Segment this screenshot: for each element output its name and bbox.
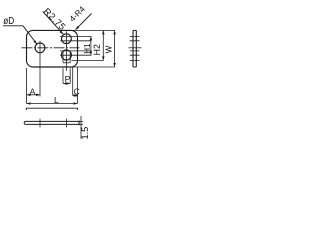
leader 4-R4 [76,14,92,30]
arrow R275 [59,30,63,34]
hole D horizontal centerline [22,47,80,49]
side view left edge [132,30,134,67]
side view bottom cap [133,66,136,68]
bottom bar tick slot [65,119,67,128]
arrow t15b [77,123,80,125]
svg-text:H1: H1 [83,43,92,54]
slot1 top edge line [60,35,91,37]
slot circle top [62,34,72,44]
bottom bar left cap [24,121,25,124]
vertical slot right edge / P extension [69,52,71,84]
arrow H1b [90,51,93,55]
bottom bar top line [26,120,79,122]
slot1 bottom edge line [60,40,91,42]
svg-text:P: P [65,74,71,84]
slot2 bottom edge line [60,54,91,56]
dimension P line [63,83,70,85]
1.5 extension vertical [80,116,82,139]
hole D circle [35,43,45,53]
vertical slot left edge / P extension [62,52,64,84]
dimension W line [114,30,116,67]
svg-text:L: L [54,95,59,105]
bottom bar tick left hole [39,119,41,128]
leader oD diagonal [23,26,37,44]
svg-text:W: W [104,45,113,53]
arrow H2t [102,30,105,34]
dimension H2 line [102,30,104,60]
plate outline main view [27,30,78,67]
hole D vertical centerline / A extension [39,41,41,97]
svg-text:øD: øD [3,15,14,26]
arrow H1t [90,36,93,40]
svg-text:H2: H2 [92,44,102,55]
slot circle bottom [61,50,71,60]
extension line slot bottom tangent [72,59,104,61]
dimension H1 line [90,36,92,55]
side view top cap [133,29,136,31]
1.5 extension ticks [80,121,84,124]
arrow Lr [74,102,78,105]
side view centerline [129,47,142,49]
svg-text:R2.75: R2.75 [41,6,68,33]
svg-text:A: A [30,86,36,96]
side view slot ticks [130,36,140,60]
svg-text:1.5: 1.5 [80,127,90,140]
arrow Pr [66,82,70,85]
svg-text:C: C [74,87,80,97]
extension line top edge to W [73,29,115,31]
extension line bottom edge to W [71,66,115,68]
C left extension [72,67,74,96]
arrow t15a [77,120,80,122]
arrow Wb [113,63,116,67]
slot2 top edge line [60,50,91,52]
leader oD underline [3,25,23,27]
vertical slot bottom end [63,62,70,64]
side view right edge [135,30,137,67]
arrow Wt [113,30,116,34]
arrow Pl [63,82,67,85]
arrow 4R4 [75,26,79,30]
arrow Cr [74,94,78,97]
dimension L line [27,103,78,105]
arrow Cl [73,94,77,97]
L left extension [26,68,28,104]
arrow Ll [27,102,31,105]
leader R2.75 [43,12,63,35]
arrow oD [33,40,36,44]
arrow Ar [36,94,40,97]
dimension C line [73,95,78,97]
C right extension [77,68,79,104]
bottom bar right cap [78,121,80,124]
bottom bar bottom line [26,123,79,125]
arrow Al [27,94,31,97]
bottom thin view line with hooks [26,108,77,110]
slot vertical centerline [65,31,67,71]
arrow H2b [102,56,105,60]
dimension A line [27,94,41,96]
